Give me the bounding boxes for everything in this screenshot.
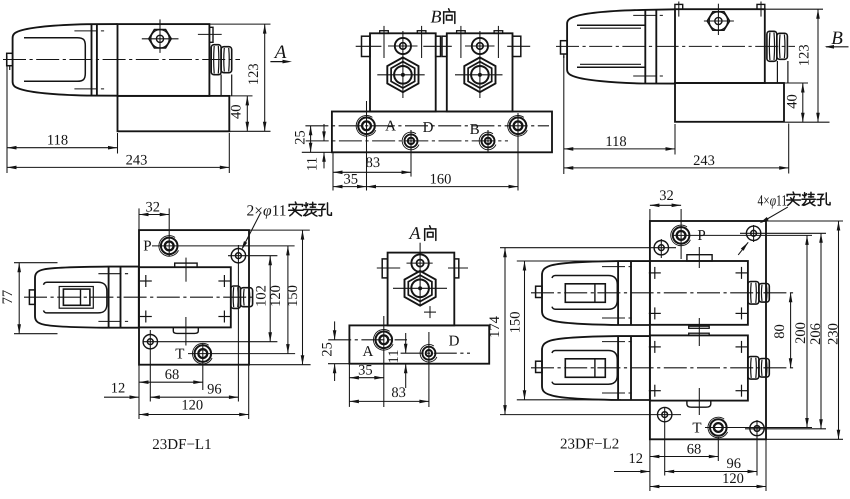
dim 200 (L2 view) bbox=[793, 235, 809, 427]
mount hole top (L1 view) bbox=[231, 249, 245, 263]
svg-text:25: 25 bbox=[293, 130, 309, 145]
dim 35 (B view) bbox=[333, 171, 367, 188]
port B (B view) bbox=[470, 122, 496, 150]
svg-text:123: 123 bbox=[797, 44, 813, 66]
dim 150 (L2 view) bbox=[508, 261, 622, 400]
port A (B view) bbox=[356, 116, 396, 137]
svg-text:4×φ11: 4×φ11 bbox=[758, 193, 788, 210]
svg-text:T: T bbox=[175, 346, 184, 362]
dim 77 (L1 view) bbox=[0, 263, 57, 334]
svg-text:25: 25 bbox=[320, 342, 336, 357]
hole BR row line (L2 view) bbox=[745, 428, 826, 430]
leader 4xphi11 (L2 view) bbox=[738, 192, 830, 255]
dim 120 right (L1 view) bbox=[268, 246, 290, 354]
svg-text:83: 83 bbox=[391, 385, 406, 401]
main centerline (top-right view) bbox=[556, 45, 795, 47]
mount hole bottom (L1 view) bbox=[143, 335, 157, 349]
dim 118 (top-right) bbox=[564, 56, 675, 174]
mid tabs between bodies (L2 view) bbox=[689, 318, 710, 346]
port D (A view) bbox=[420, 333, 459, 362]
plus mark (A view) bbox=[424, 306, 436, 318]
valve body 1 (L2 view) bbox=[650, 261, 748, 325]
valve body (L1 view) bbox=[139, 267, 231, 327]
svg-text:A: A bbox=[362, 344, 373, 360]
hex nut crosshair (top-right view) bbox=[704, 4, 734, 35]
body bottom tab (L1 view) bbox=[173, 317, 198, 346]
svg-text:123: 123 bbox=[246, 63, 262, 85]
svg-text:A: A bbox=[273, 42, 287, 63]
dim 150 (L1 view) bbox=[285, 230, 304, 365]
svg-text:83: 83 bbox=[366, 155, 381, 171]
svg-text:68: 68 bbox=[165, 367, 180, 383]
nameplate window (L1 view) bbox=[59, 287, 93, 309]
solenoid connector tab (L1 view) bbox=[29, 290, 35, 305]
view arrow A bbox=[270, 42, 292, 63]
P row line (L2 view) bbox=[673, 234, 812, 236]
dim 32 (L2 view) bbox=[650, 188, 681, 259]
svg-text:118: 118 bbox=[47, 133, 68, 149]
svg-text:80: 80 bbox=[772, 324, 788, 339]
pilot circle (A view) bbox=[407, 243, 433, 276]
svg-text:77: 77 bbox=[0, 290, 16, 305]
dim 68 (L2 view) bbox=[650, 437, 718, 491]
svg-text:120: 120 bbox=[722, 471, 744, 487]
hex nut on body top (top-left view) bbox=[149, 30, 171, 49]
hex plug left valve (B view) bbox=[377, 57, 424, 98]
subplate (L1 view) bbox=[139, 230, 249, 365]
right valve body (B view) bbox=[447, 33, 513, 111]
row A centerline (A view) bbox=[328, 339, 407, 341]
svg-text:35: 35 bbox=[358, 363, 373, 379]
solenoid connector tab (top-left view) bbox=[7, 53, 13, 70]
dim 96 (L2 view) bbox=[665, 423, 757, 476]
left valve body (B view) bbox=[370, 33, 436, 111]
dim 206 (L2 view) bbox=[808, 233, 824, 428]
manual override hex stack (L1 view) bbox=[231, 286, 253, 308]
top tabs (B view) bbox=[380, 26, 503, 58]
leader 2xphi11 (L1 view) bbox=[241, 202, 331, 250]
svg-text:B: B bbox=[470, 122, 480, 138]
svg-text:B: B bbox=[831, 28, 843, 49]
subplate (A view) bbox=[349, 325, 489, 363]
body top tab (L1 view) bbox=[175, 258, 197, 282]
port T (L1 view) bbox=[175, 343, 212, 364]
B-view label bbox=[431, 7, 455, 27]
svg-text:200: 200 bbox=[793, 322, 809, 344]
dim 174 (L2 view) bbox=[487, 248, 507, 415]
hex plug right valve (B view) bbox=[455, 57, 503, 98]
svg-text:P: P bbox=[697, 228, 705, 244]
row D centerline (B view) bbox=[306, 140, 508, 142]
manual override hex stack (top-left view) bbox=[211, 45, 232, 96]
dim 120 bottom (L1 view) bbox=[139, 365, 249, 419]
main centerline (top-left view) bbox=[3, 59, 240, 61]
svg-text:D: D bbox=[449, 333, 460, 349]
svg-text:32: 32 bbox=[146, 200, 161, 216]
hex stack 2 (L2 view) bbox=[748, 357, 769, 380]
dim 123 (top-right) bbox=[765, 9, 830, 122]
ext verticals (B view) bbox=[333, 101, 518, 191]
dim 80 (L2 view) bbox=[772, 293, 792, 368]
mount hole BR (L2 view) bbox=[750, 420, 764, 437]
corner plus marks (L2 view) bbox=[649, 267, 748, 397]
centerline row1 (L2 view) bbox=[531, 292, 797, 294]
body1 top tab (L2 view) bbox=[687, 247, 712, 268]
dim 25 (B view) bbox=[293, 126, 313, 153]
caption 23DF-L2 bbox=[560, 437, 619, 453]
svg-text:40: 40 bbox=[785, 94, 801, 109]
dim 32 (L1 view) bbox=[139, 200, 169, 237]
terminal tab right of body (top-left view) bbox=[198, 27, 222, 42]
svg-text:243: 243 bbox=[693, 153, 715, 169]
svg-text:2×φ11: 2×φ11 bbox=[247, 203, 287, 220]
hole BL row line (L2 view) bbox=[500, 414, 681, 416]
subplate (L2 view) bbox=[650, 221, 766, 439]
svg-text:174: 174 bbox=[487, 315, 503, 338]
top tab right (top-right view) bbox=[757, 2, 765, 17]
svg-text:40: 40 bbox=[228, 105, 244, 120]
main centerline (L1 view) bbox=[24, 296, 253, 298]
port T (L2 view) bbox=[692, 417, 727, 438]
svg-text:118: 118 bbox=[605, 134, 626, 150]
A-view label bbox=[409, 223, 436, 243]
dim 11 (B view) bbox=[304, 124, 325, 171]
svg-text:96: 96 bbox=[207, 382, 222, 398]
svg-text:160: 160 bbox=[430, 172, 452, 188]
svg-text:35: 35 bbox=[344, 171, 359, 187]
plate bottom ext left (A view) bbox=[328, 363, 349, 365]
solenoid coil (top-right side view) bbox=[567, 9, 675, 83]
solenoid coil (top-left side view) bbox=[13, 24, 118, 96]
solenoid connector tab (top-right view) bbox=[561, 41, 568, 58]
bolt centerline dash-dots (top-right view) bbox=[633, 15, 666, 76]
hole2 row line (L1 view) bbox=[143, 341, 277, 343]
dim 35 (A view) bbox=[349, 363, 383, 380]
port P (L1 view) bbox=[143, 236, 178, 257]
svg-text:12: 12 bbox=[111, 381, 126, 397]
svg-text:P: P bbox=[143, 238, 151, 254]
pilot circle left valve (B view) bbox=[388, 31, 418, 62]
svg-text:23DF−L2: 23DF−L2 bbox=[560, 437, 619, 453]
dim 230 (L2 view) bbox=[766, 221, 843, 439]
solenoid coil 2 (L2 view) bbox=[536, 336, 650, 400]
dim 123 (top-left) bbox=[209, 24, 270, 131]
body2 bottom tab (L2 view) bbox=[687, 388, 711, 415]
subplate (B view) bbox=[332, 112, 552, 153]
ear crosshairs (A view) bbox=[377, 267, 468, 269]
dim 102 (L1 view) bbox=[254, 256, 273, 342]
dim 40 (top-right) bbox=[785, 83, 809, 122]
pilot circle right valve (B view) bbox=[465, 31, 495, 62]
dim 118 (top-left) bbox=[7, 56, 118, 173]
svg-text:11: 11 bbox=[304, 157, 320, 171]
hole TR row line (L2 view) bbox=[740, 232, 826, 234]
corner plus marks (L1 view) bbox=[140, 275, 231, 323]
valve body (A view) bbox=[388, 253, 455, 326]
svg-text:120: 120 bbox=[181, 398, 203, 414]
svg-text:T: T bbox=[692, 420, 701, 436]
vertical exts (L1 view) bbox=[150, 236, 238, 402]
T row line (L1 view) bbox=[188, 353, 295, 355]
svg-text:150: 150 bbox=[285, 285, 301, 307]
dim 96 (L1 view) bbox=[150, 382, 238, 400]
dim 243 (top-left) bbox=[7, 133, 229, 173]
svg-text:96: 96 bbox=[727, 456, 742, 472]
top tab left (top-right view) bbox=[675, 2, 683, 17]
mount hole BL (L2 view) bbox=[658, 407, 672, 423]
side ears (B view) bbox=[362, 36, 521, 56]
solenoid coil 1 (L2 view) bbox=[536, 261, 650, 325]
dim 83 (A view) bbox=[349, 385, 429, 403]
caption 23DF-L1 bbox=[152, 437, 211, 453]
plate bottom ext left (B view) bbox=[302, 151, 332, 153]
P row line (L1 view) bbox=[152, 245, 295, 247]
svg-text:32: 32 bbox=[659, 188, 674, 204]
valve body 2 (L2 view) bbox=[650, 335, 748, 400]
view arrow B bbox=[825, 28, 849, 49]
hole TL row line (L2 view) bbox=[500, 247, 676, 249]
side ears (A view) bbox=[382, 259, 459, 278]
dim 83 (B view) bbox=[333, 155, 411, 174]
dim 40 (top-left) bbox=[228, 96, 252, 131]
dim 11 (A view) bbox=[386, 333, 408, 388]
dim 12 (L2 view) bbox=[614, 451, 650, 473]
ext verticals (A view) bbox=[349, 316, 429, 407]
svg-text:A: A bbox=[409, 223, 422, 243]
svg-text:23DF−L1: 23DF−L1 bbox=[152, 437, 211, 453]
svg-text:B: B bbox=[431, 7, 442, 27]
valve body (top-right view) bbox=[675, 9, 765, 83]
bolt dash-dots (L1 view) bbox=[98, 274, 130, 322]
subplate block (top-right view) bbox=[675, 83, 784, 122]
valve body (top-left view) bbox=[118, 24, 210, 96]
dim 68 (L1 view) bbox=[139, 365, 203, 419]
dim 12 (L1 view) bbox=[104, 381, 139, 400]
svg-text:11: 11 bbox=[386, 350, 402, 364]
mount hole TL (L2 view) bbox=[654, 239, 668, 258]
svg-text:D: D bbox=[423, 120, 434, 136]
centerline row2 (L2 view) bbox=[531, 367, 797, 369]
port A (A view) bbox=[362, 330, 393, 361]
row D centerline (A view) bbox=[401, 352, 470, 354]
mount hole TR (L2 view) bbox=[746, 225, 760, 242]
hole1 row line (L1 view) bbox=[228, 255, 277, 257]
dim 25 (A view) bbox=[320, 321, 337, 381]
svg-text:230: 230 bbox=[826, 323, 842, 345]
dim 160 (B view) bbox=[367, 172, 519, 189]
T row line (L2 view) bbox=[705, 427, 812, 429]
hex plug (A view) bbox=[393, 271, 447, 306]
dim 243 (top-right) bbox=[564, 124, 789, 174]
svg-text:68: 68 bbox=[687, 442, 702, 458]
port D (B view) bbox=[402, 120, 433, 150]
svg-text:120: 120 bbox=[268, 285, 284, 307]
svg-text:206: 206 bbox=[808, 323, 824, 345]
svg-text:150: 150 bbox=[508, 312, 524, 334]
plate top ext right (L1 view) bbox=[249, 229, 310, 231]
dim 120 (L2 view) bbox=[650, 439, 766, 491]
hex nut on body top (top-right view) bbox=[707, 12, 729, 30]
row A centerline (B view) bbox=[305, 125, 549, 127]
port P (L2 view) bbox=[671, 225, 706, 246]
bolt centerline dash-dots (top-left view) bbox=[74, 31, 106, 89]
hex stack 1 (L2 view) bbox=[748, 282, 769, 305]
subplate block (top-left view) bbox=[118, 96, 230, 131]
solenoid coil (L1 view) bbox=[35, 267, 139, 328]
hex nut crosshair (top-left view) bbox=[142, 19, 179, 53]
svg-text:12: 12 bbox=[629, 451, 644, 467]
manual override hex stack (top-right view) bbox=[767, 31, 788, 83]
ear crosshairs (B view) bbox=[356, 45, 531, 47]
svg-text:243: 243 bbox=[126, 152, 148, 168]
plate bottom ext right (L1 view) bbox=[249, 364, 311, 366]
port right (B view) bbox=[508, 116, 528, 137]
